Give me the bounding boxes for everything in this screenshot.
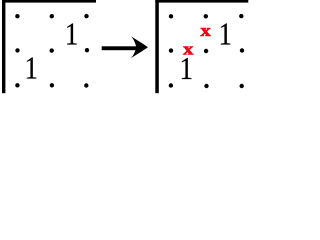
left grid square border (top-left corner frame) <box>2 0 96 93</box>
arrow between squares <box>102 36 148 58</box>
right grid lattice dots <box>169 14 245 88</box>
left grid lattice dots <box>15 14 89 88</box>
svg-text:x: x <box>200 22 211 41</box>
svg-text:1: 1 <box>219 17 233 51</box>
right grid square border (top-left corner frame) <box>155 0 248 93</box>
svg-text:1: 1 <box>25 52 39 86</box>
svg-text:1: 1 <box>65 17 79 51</box>
svg-text:x: x <box>183 40 194 59</box>
